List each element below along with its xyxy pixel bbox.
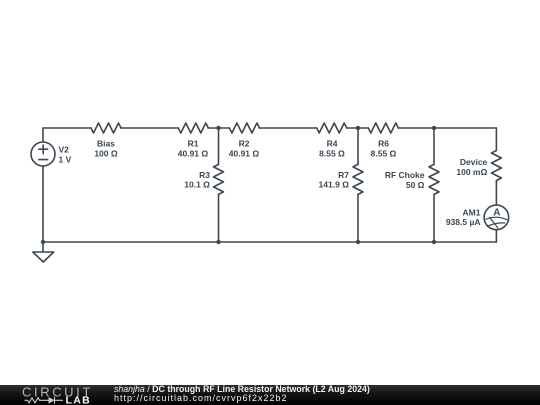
resistor R3 10.1 Ω: [214, 164, 224, 194]
wire bottom rail to ground: [42, 242, 44, 252]
node junction R7 bottom: [356, 240, 360, 244]
resistor Device 100 mΩ: [491, 151, 501, 181]
wire R1 to R2 through node: [208, 127, 229, 129]
wire Bias to R1: [121, 127, 178, 129]
svg-text:8.55 Ω: 8.55 Ω: [371, 148, 397, 158]
wire node B down to R7: [357, 128, 359, 164]
wire top-left segment: [43, 127, 91, 129]
svg-text:AM1: AM1: [463, 207, 481, 217]
svg-text:R6: R6: [378, 139, 389, 149]
wire node A down to R3: [218, 128, 220, 164]
wire node C down to RF Choke: [433, 128, 435, 164]
svg-text:Bias: Bias: [97, 139, 115, 149]
svg-text:R1: R1: [188, 139, 199, 149]
node junction R4/R6/R7: [356, 126, 360, 130]
ground: [33, 252, 54, 262]
wire top-left down to V2: [42, 128, 44, 142]
node junction R3 bottom: [216, 240, 220, 244]
footer title text: [114, 385, 370, 394]
svg-text:R4: R4: [327, 139, 338, 149]
voltage source V2: [31, 142, 55, 166]
svg-text:100 mΩ: 100 mΩ: [456, 167, 487, 177]
node junction RF Choke bottom: [432, 240, 436, 244]
svg-text:V2: V2: [59, 145, 70, 155]
wire R4 to R6 through node: [347, 127, 369, 129]
footer watermark bar: [0, 385, 540, 405]
svg-text:R3: R3: [199, 170, 210, 180]
svg-text:1 V: 1 V: [59, 154, 72, 164]
svg-text:LAB: LAB: [66, 394, 91, 405]
footer url text: [114, 394, 288, 403]
ammeter AM1: [484, 205, 509, 230]
svg-text:50 Ω: 50 Ω: [406, 180, 425, 190]
wire R2 to R4: [259, 127, 316, 129]
svg-text:8.55 Ω: 8.55 Ω: [319, 148, 345, 158]
svg-text:Device: Device: [460, 157, 488, 167]
svg-text:938.5 µA: 938.5 µA: [446, 217, 481, 227]
node junction R1/R2/R3: [216, 126, 220, 130]
CircuitLab logo: [0, 385, 110, 405]
resistor R4 8.55 Ω: [317, 123, 347, 133]
wire Device to ammeter: [495, 181, 497, 206]
wire top-right down to Device: [495, 128, 497, 151]
resistor R7 141.9 Ω: [353, 164, 363, 194]
resistor R2 40.91 Ω: [229, 123, 259, 133]
wire ammeter to bottom rail: [495, 230, 497, 242]
wire bottom rail: [43, 241, 496, 243]
svg-text:A: A: [493, 207, 500, 218]
svg-text:10.1 Ω: 10.1 Ω: [184, 180, 210, 190]
resistor RF Choke 50 Ω: [429, 164, 439, 194]
svg-text:R7: R7: [338, 170, 349, 180]
node junction R6/RF Choke: [432, 126, 436, 130]
wire R6 to top-right corner: [398, 127, 496, 129]
wire R3 to bottom rail: [218, 194, 220, 242]
svg-text:100 Ω: 100 Ω: [94, 148, 118, 158]
svg-text:141.9 Ω: 141.9 Ω: [319, 180, 350, 190]
svg-text:40.91 Ω: 40.91 Ω: [229, 148, 260, 158]
resistor R6 8.55 Ω: [368, 123, 398, 133]
wire RF Choke to bottom rail: [433, 194, 435, 242]
resistor Bias 100 Ω: [91, 123, 121, 133]
node junction ground rail left: [41, 240, 45, 244]
wire R7 to bottom rail: [357, 194, 359, 242]
svg-text:40.91 Ω: 40.91 Ω: [178, 148, 209, 158]
resistor R1 40.91 Ω: [178, 123, 208, 133]
svg-text:R2: R2: [239, 139, 250, 149]
wire V2 to bottom rail: [42, 166, 44, 242]
svg-text:RF Choke: RF Choke: [385, 170, 425, 180]
